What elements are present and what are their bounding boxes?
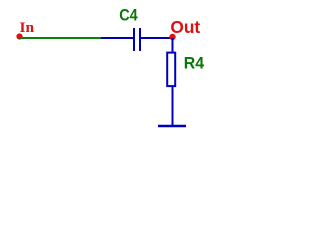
wire node Out down to R4	[172, 38, 174, 53]
wire green-blue junction to C4 left terminal	[101, 37, 134, 39]
node Out dot	[169, 34, 175, 40]
resistor R4 body	[167, 53, 175, 87]
svg-text:In: In	[20, 20, 35, 36]
node In dot	[16, 33, 22, 39]
ground	[158, 125, 186, 128]
svg-text:Out: Out	[170, 17, 200, 37]
wire C4 right terminal to node Out	[141, 37, 173, 39]
wire R4 to ground	[172, 87, 174, 125]
capacitor C4 left plate	[133, 28, 135, 51]
wire In to C4 (green segment)	[20, 37, 102, 39]
capacitor C4 right plate	[139, 28, 141, 51]
svg-text:R4: R4	[184, 55, 205, 73]
svg-text:C4: C4	[119, 6, 138, 24]
